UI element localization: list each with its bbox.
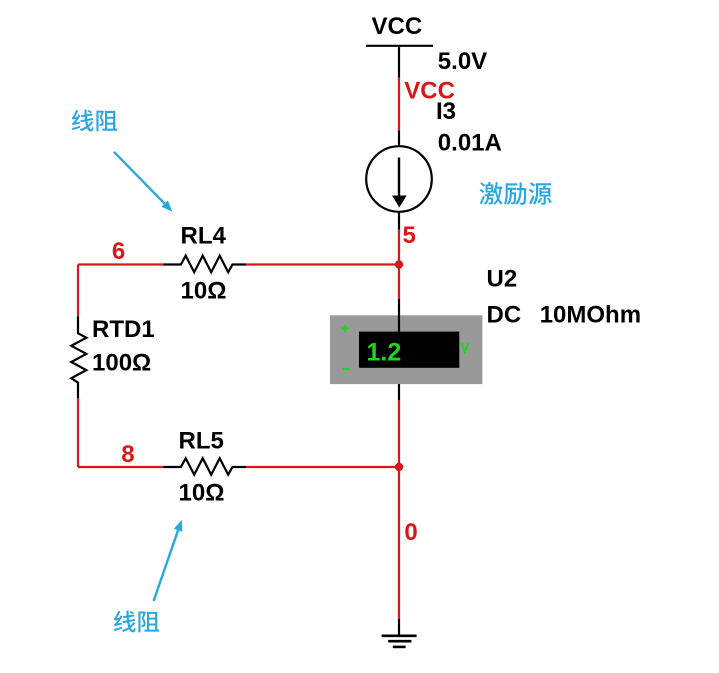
svg-text:8: 8 bbox=[121, 441, 134, 468]
svg-text:U2: U2 bbox=[487, 266, 518, 293]
svg-text:RTD1: RTD1 bbox=[92, 316, 155, 343]
svg-text:VCC: VCC bbox=[372, 13, 423, 40]
svg-text:100Ω: 100Ω bbox=[92, 350, 151, 377]
svg-text:0: 0 bbox=[404, 519, 417, 546]
svg-text:5.0V: 5.0V bbox=[438, 48, 487, 75]
svg-text:6: 6 bbox=[112, 238, 125, 265]
svg-text:1.2: 1.2 bbox=[367, 339, 402, 367]
svg-text:5: 5 bbox=[403, 222, 416, 249]
svg-text:10Ω: 10Ω bbox=[179, 480, 225, 507]
svg-text:RL5: RL5 bbox=[179, 428, 224, 455]
svg-text:0.01A: 0.01A bbox=[438, 129, 502, 156]
svg-text:10MOhm: 10MOhm bbox=[540, 302, 641, 329]
svg-text:RL4: RL4 bbox=[181, 222, 227, 249]
svg-text:VCC: VCC bbox=[404, 78, 455, 105]
svg-text:10Ω: 10Ω bbox=[181, 278, 227, 305]
svg-text:DC: DC bbox=[487, 302, 522, 329]
